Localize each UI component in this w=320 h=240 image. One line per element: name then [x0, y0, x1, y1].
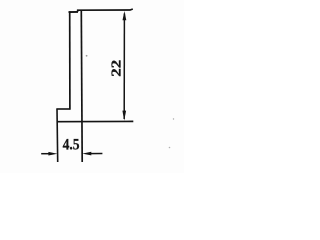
scan speck 1 — [86, 55, 88, 57]
arrowhead down (dim 22 bottom) — [122, 111, 126, 121]
svg-text:22: 22 — [110, 60, 125, 77]
arrowhead left-pointing (dim 4.5 right) — [82, 152, 91, 156]
part outline: top edge — [69, 11, 79, 13]
part outline: step shoulder — [56, 108, 70, 110]
part outline: right edge — [80, 11, 83, 162]
scan speck 3 — [173, 118, 174, 119]
arrowhead up (dim 22 top) — [123, 11, 127, 20]
dimension line 4.5 right tail — [88, 153, 103, 155]
part outline: left edge of upper column — [69, 11, 71, 109]
dimension line 4.5 left tail — [41, 153, 52, 155]
arrowhead right-pointing (dim 4.5 left) — [48, 152, 57, 156]
scan speck 2 — [169, 147, 171, 149]
dimension line 22 (vertical) — [123, 14, 125, 120]
part outline: lower left edge — [56, 109, 59, 162]
extension line for dim 22 (top) — [78, 9, 133, 12]
svg-text:4.5: 4.5 — [63, 136, 80, 153]
part outline: base top edge / extension line for dim 22 (bottom) — [57, 120, 133, 122]
